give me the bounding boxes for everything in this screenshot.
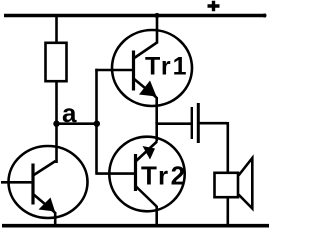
wire: Q3 emitter to ground rail: [54, 212, 57, 227]
wire: Tr2 base lead: [95, 172, 135, 175]
label: + supply polarity: [208, 1, 220, 11]
speaker LS1 box: [215, 173, 239, 197]
wire: capacitor to speaker corner: [200, 122, 228, 173]
wire: top supply rail: [4, 14, 266, 17]
svg-text:Tr1: Tr1: [145, 53, 189, 81]
Tr2 collector diagonal (bottom): [136, 186, 157, 207]
Q3 base bar: [31, 164, 34, 205]
capacitor C1 left plate: [191, 107, 193, 139]
node: rail junction blob: [154, 13, 159, 18]
wire: Tr1 emitter down to output node: [155, 97, 158, 124]
Q3 emitter diagonal: [33, 194, 55, 213]
wire: node a horizontal link: [57, 122, 98, 125]
wire: output node down to Tr2: [155, 122, 158, 142]
transistor Tr1 (upper output transistor): [112, 30, 192, 106]
resistor R1 (bias resistor): [46, 43, 67, 81]
node A (junction dot right): [94, 121, 100, 127]
wire: left vertical from rail to resistor: [55, 16, 58, 44]
Q3 collector diagonal: [33, 161, 56, 176]
svg-text:Tr2: Tr2: [141, 161, 188, 191]
node A (junction dot left): [53, 121, 59, 127]
transistor Tr2 (lower output transistor): [109, 137, 184, 212]
transistor Q3 (driver, lower left): [9, 146, 88, 218]
wire: Q3 base input lead from left edge: [1, 181, 33, 184]
speaker LS1 horn: [239, 158, 253, 209]
wire: output node to capacitor: [157, 122, 191, 125]
Tr1 emitter diagonal: [134, 79, 157, 98]
wire: vertical bus joining Tr1 base and Tr2 base: [95, 69, 98, 173]
wire: Tr2 bottom lead to ground rail: [155, 206, 158, 227]
node: right end blob of top rail: [263, 14, 267, 18]
Tr2 base bar: [134, 154, 137, 191]
Tr2 emitter diagonal (top): [136, 142, 158, 162]
Tr2 emitter arrow: [143, 146, 156, 160]
Tr1 emitter arrow: [139, 81, 157, 97]
svg-text:a: a: [62, 98, 77, 128]
wire: speaker to ground rail: [227, 197, 230, 227]
wire: Tr1 base lead: [95, 69, 132, 72]
wire: bottom ground rail: [2, 224, 269, 228]
wire: Tr1 collector to top rail: [156, 16, 159, 44]
wire: resistor bottom to node a and down into driver collector: [55, 81, 58, 163]
Q3 emitter arrow: [39, 198, 56, 212]
Tr1 collector diagonal: [134, 43, 158, 59]
Tr1 base bar: [132, 51, 135, 91]
capacitor C1 right plate: [197, 103, 200, 143]
